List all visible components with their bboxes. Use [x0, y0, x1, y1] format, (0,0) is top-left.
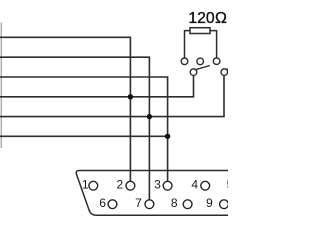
pin 9: [220, 200, 229, 209]
pin 1: [89, 181, 98, 190]
pin 6: [108, 200, 117, 209]
wire line6 tee into pin3 wire: [0, 135, 168, 137]
resistor right leg: [210, 31, 217, 58]
left terminal edge (cropped box): [0, 23, 2, 149]
resistor R term body: [190, 28, 210, 34]
switch pole D: [190, 69, 197, 76]
svg-text:120Ω: 120Ω: [188, 10, 227, 27]
svg-text:1: 1: [82, 177, 89, 191]
DB9 connector shell: [76, 171, 228, 216]
contact B (open): [197, 58, 204, 65]
wire line4 to switch pole D: [0, 75, 194, 97]
switch arm E: [227, 68, 230, 71]
svg-text:2: 2: [117, 177, 124, 191]
svg-text:3: 3: [154, 177, 161, 191]
pin 2: [126, 181, 135, 190]
junction dot line5/pin7 wire: [147, 114, 152, 119]
svg-text:8: 8: [171, 196, 178, 210]
pin 4: [201, 181, 210, 190]
pin 3: [163, 181, 172, 190]
switch arm D: [195, 66, 210, 70]
resistor left leg: [185, 31, 191, 58]
contact A (resistor left): [181, 58, 188, 65]
svg-text:4: 4: [191, 177, 198, 191]
switch pole E: [221, 69, 228, 76]
junction dot line6/pin3 wire: [165, 134, 170, 139]
junction dot line4/pin2 wire: [128, 94, 133, 99]
wire line1 to pin 2: [0, 37, 130, 181]
wire line2 to pin 7: [0, 57, 149, 200]
svg-text:7: 7: [135, 196, 142, 210]
wire line3 to pin 3: [0, 77, 168, 182]
svg-text:9: 9: [206, 196, 213, 210]
svg-text:5: 5: [227, 177, 228, 191]
svg-text:6: 6: [99, 196, 106, 210]
pin 7: [145, 200, 154, 209]
contact C (resistor right): [213, 58, 220, 65]
pin 8: [183, 200, 192, 209]
wire line5 to switch pole E: [0, 75, 224, 116]
